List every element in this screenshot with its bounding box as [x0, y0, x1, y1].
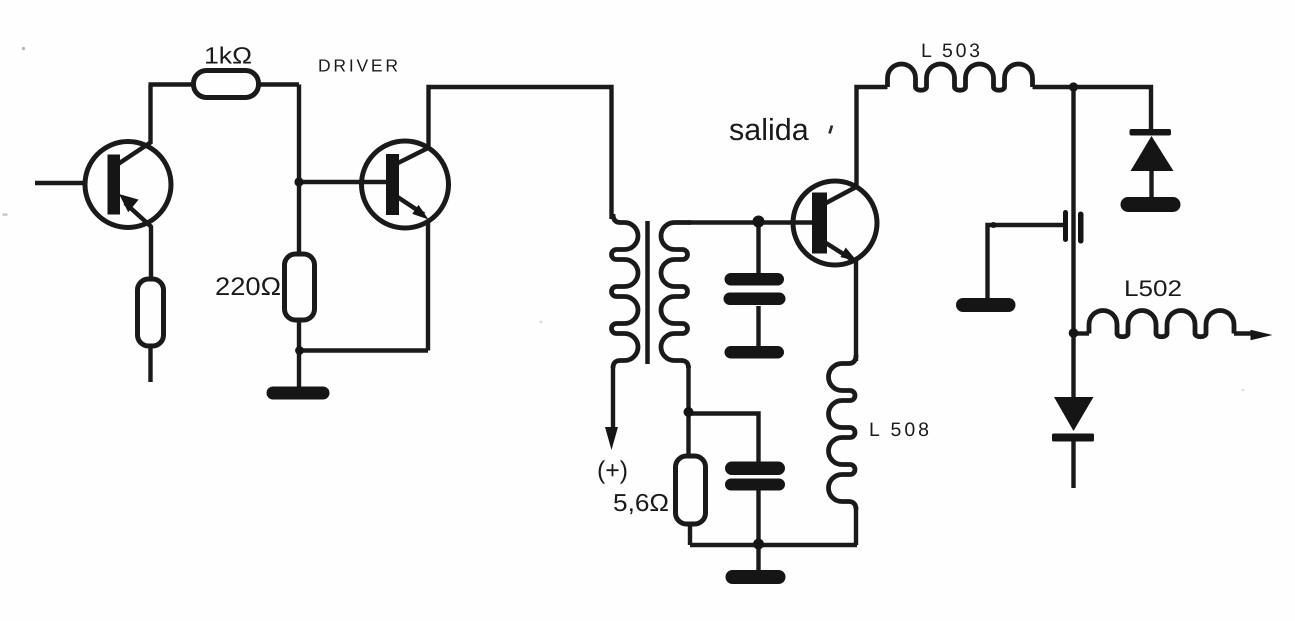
- svg-text:L 508: L 508: [869, 419, 929, 441]
- svg-text:L502: L502: [1124, 276, 1182, 301]
- svg-text:L 503: L 503: [921, 40, 980, 62]
- svg-text:salida: salida: [729, 113, 809, 147]
- svg-text:1kΩ: 1kΩ: [204, 43, 252, 69]
- svg-text:5,6Ω: 5,6Ω: [613, 490, 669, 517]
- svg-text:DRIVER: DRIVER: [318, 56, 398, 76]
- svg-text:220Ω: 220Ω: [215, 273, 281, 301]
- svg-text:(+): (+): [597, 457, 628, 485]
